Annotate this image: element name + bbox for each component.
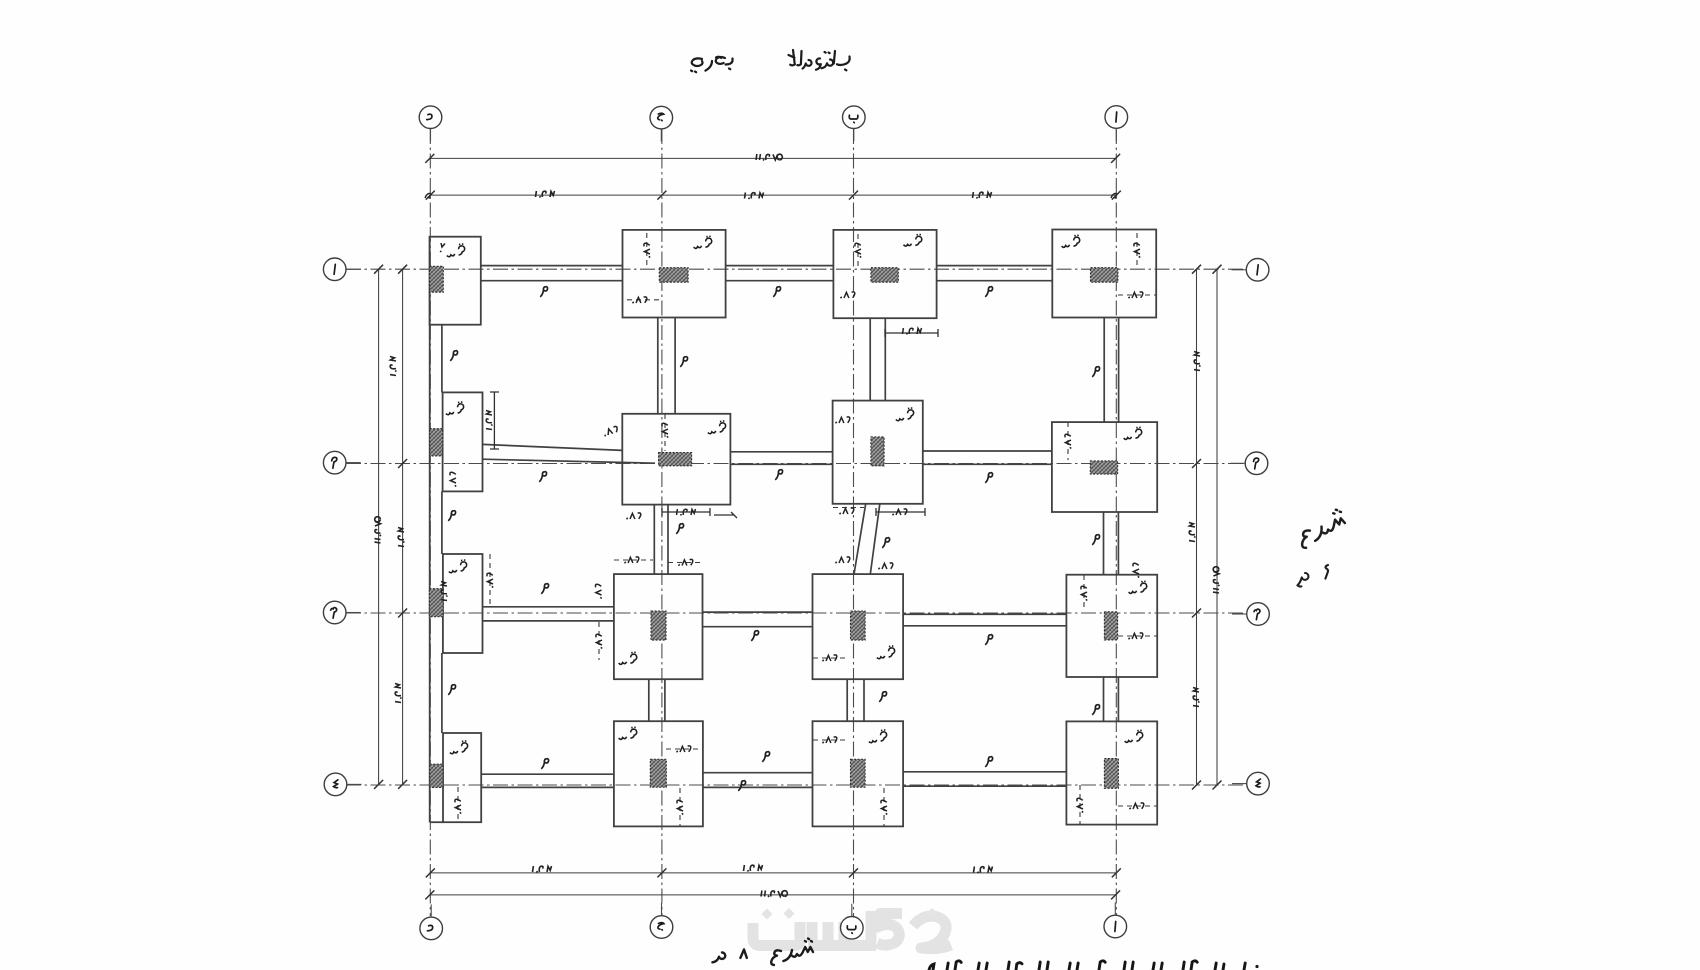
strip row1 G-B xyxy=(726,266,834,281)
strip G r3-r4 xyxy=(649,679,665,721)
hatched column col D2 xyxy=(430,429,443,456)
text top: bahari (north) xyxy=(691,57,733,72)
dim label 3.20 right xyxy=(1189,523,1195,542)
strip G r2-r3 xyxy=(654,505,668,574)
axis circle top A xyxy=(1105,106,1128,129)
axis circle bottom B xyxy=(841,917,864,940)
strip D inner r1-r2 xyxy=(441,325,443,393)
hatched column col A2 xyxy=(1090,461,1117,474)
grid axis vertical lines xyxy=(430,129,1116,916)
dimension line left segments xyxy=(402,269,404,784)
small dimension lines with ticks xyxy=(490,329,938,518)
dim label 10.88 left (rotated) xyxy=(375,517,381,543)
hatched column col G3 xyxy=(651,611,666,640)
circle connector stubs xyxy=(346,128,1247,917)
footing R11 outline xyxy=(813,574,904,679)
dim label 4.04 top xyxy=(745,193,764,199)
strip row3 G-B xyxy=(703,612,813,627)
dim label 4.81 bottom xyxy=(533,866,552,872)
dim end curl right xyxy=(1111,194,1117,199)
hatched column col G4 xyxy=(650,759,666,787)
dimension line right segments xyxy=(1196,269,1198,785)
text bottom right: cut-off title strokes xyxy=(929,961,1259,970)
strip row4 G-B xyxy=(703,773,813,788)
axis circle left 1 xyxy=(323,258,346,281)
small dashed extension lines xyxy=(458,233,1157,826)
strip G r1-r2 xyxy=(658,318,675,414)
strip A r3-r4 xyxy=(1104,677,1119,721)
dim label 3.26 right xyxy=(1193,688,1199,707)
text right: street 6 m (rotated) xyxy=(1296,508,1349,548)
dimension line bottom segments xyxy=(430,872,1116,874)
strip row4 D-G xyxy=(481,774,614,787)
axis circle right 3 xyxy=(1247,603,1270,626)
footing R15 outline xyxy=(813,721,904,826)
strip row2 D-G (sloped) xyxy=(483,444,656,463)
footing R8 outline xyxy=(1052,422,1157,512)
axis circle left 2 xyxy=(323,451,346,474)
strip row3 D-G xyxy=(483,607,614,621)
axis circle bottom A xyxy=(1104,915,1127,938)
dim label 5.00 bottom xyxy=(974,867,993,873)
hatched column col D3 xyxy=(429,589,443,617)
footing R14 outline xyxy=(614,721,703,826)
dim mark 4.5 near Q1 xyxy=(440,243,445,252)
dim label 4.04 bottom xyxy=(744,865,763,871)
footing R13 bottom extension xyxy=(430,821,443,823)
footing R5 outline xyxy=(443,392,483,491)
strip row4 B-A xyxy=(903,772,1066,786)
footing R13 outline xyxy=(443,733,481,822)
axis circle top G xyxy=(650,106,673,129)
footing R12 outline xyxy=(1066,575,1157,677)
dimension line left overall 10.88 xyxy=(378,269,380,784)
axis circle right 4 xyxy=(1247,772,1270,795)
hatched column col D1 xyxy=(430,266,444,292)
footing R1 outline xyxy=(430,237,481,325)
text top: baqi milk (remaining property) xyxy=(789,50,850,70)
strip B r3-r4 xyxy=(847,679,864,721)
strip A r2-r3 xyxy=(1104,512,1119,575)
room labels M xyxy=(540,286,547,296)
dim label 13.28 bottom xyxy=(761,891,787,897)
dim label 2.98 right xyxy=(1194,352,1200,371)
dimension line top segments xyxy=(430,194,1116,196)
strip row1 B-A xyxy=(937,266,1053,281)
footing R3 outline xyxy=(833,230,936,318)
footing type labels Q3 xyxy=(445,243,466,258)
footing R10 outline xyxy=(614,574,703,679)
dim label 13.28 top xyxy=(756,154,782,160)
strip row2 B-A xyxy=(923,451,1052,464)
strip row2 G-B xyxy=(730,452,832,465)
axis circle left 4 xyxy=(324,773,347,796)
dim label 2.98 left xyxy=(390,357,396,376)
hatched column col B3 xyxy=(851,611,866,640)
text bottom: street 8 m xyxy=(712,939,813,966)
small dimension squiggle labels xyxy=(644,243,650,257)
strip B r1-r2 xyxy=(870,318,885,400)
dim label 3.26 left xyxy=(395,684,401,703)
hatched column col B2 xyxy=(871,437,884,466)
axis circle bottom G xyxy=(650,916,673,939)
footing R9 outline xyxy=(443,554,483,653)
text right: digit 6 and meem xyxy=(1297,565,1328,587)
outer left property edge xyxy=(429,237,431,823)
strip row3 B-A xyxy=(903,614,1066,626)
axis circle top B xyxy=(843,106,866,129)
dimension line bottom overall 13.28 xyxy=(430,894,1116,896)
strip A r1-r2 xyxy=(1104,318,1118,423)
dim label 4.81 top xyxy=(536,191,555,197)
watermark khamsat logo (light gray) xyxy=(753,911,951,949)
strip B r2-r3 (slanted) xyxy=(854,504,880,574)
axis circle right 1 xyxy=(1246,259,1269,282)
footing R4 outline xyxy=(1052,230,1156,318)
hatched column col B1 xyxy=(871,268,898,283)
hatched column col G2 xyxy=(659,453,692,466)
hatched column col G1 xyxy=(659,268,688,283)
hatched column col A1 xyxy=(1091,268,1118,283)
axis circle top D xyxy=(419,106,442,129)
axis circle bottom D xyxy=(420,917,443,940)
dim label 3.20 left xyxy=(398,528,404,547)
axis circle right 2 xyxy=(1245,452,1268,475)
footing R6 outline xyxy=(622,414,730,505)
grid axis horizontal lines xyxy=(346,269,1246,785)
dim label 5.00 top xyxy=(973,192,992,198)
dimension line top overall 13.28 xyxy=(430,157,1116,159)
strip row1 D-G xyxy=(481,266,623,281)
footing R7 outline xyxy=(833,401,923,504)
strip D inner r2-r3 xyxy=(441,491,443,554)
footing R2 outline xyxy=(623,230,726,318)
footing R16 outline xyxy=(1066,721,1157,824)
dim end curl left xyxy=(425,194,431,199)
hatched column col A4 xyxy=(1104,759,1118,789)
hatched column col D4 xyxy=(430,764,443,787)
axis circle left 3 xyxy=(323,601,346,624)
dim label 10.88 right (rotated) xyxy=(1213,567,1219,593)
strip D inner r3-r4 xyxy=(441,653,443,733)
hatched column col B4 xyxy=(851,759,866,787)
dimension line right overall 10.88 xyxy=(1216,269,1218,785)
hatched column col A3 xyxy=(1104,612,1117,640)
